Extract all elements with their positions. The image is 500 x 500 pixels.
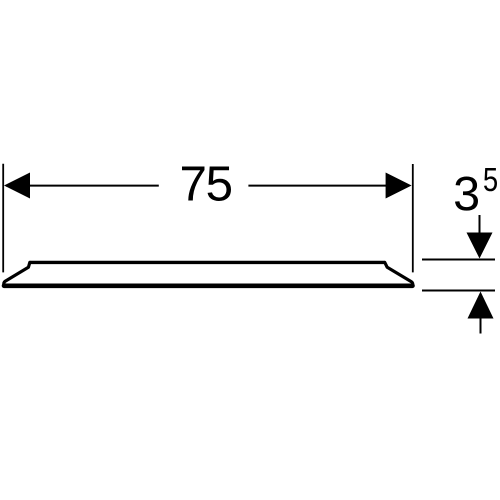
dimension text 75 xyxy=(182,167,231,202)
leader line above down arrow (3.5 dim) xyxy=(479,215,481,234)
up arrowhead (3.5 dim) xyxy=(468,292,494,319)
bottom extension line (thickness) xyxy=(422,290,495,292)
cover plate right bevel xyxy=(385,262,413,285)
cover plate top edge xyxy=(30,261,385,264)
top extension line (thickness) xyxy=(422,259,495,261)
dimension line 75, left segment xyxy=(6,185,159,187)
arrowhead left (75) xyxy=(4,173,30,199)
arrowhead right (75) xyxy=(386,173,412,199)
extension line left (width 75) xyxy=(2,164,4,273)
extension line right (width 75) xyxy=(412,164,414,272)
leader line below up arrow (3.5 dim) xyxy=(480,317,482,334)
superscript 5 (thickness 3.5) xyxy=(484,168,497,191)
cover plate left bevel xyxy=(4,262,30,285)
dimension line 75, right segment xyxy=(248,185,406,187)
down arrowhead (3.5 dim) xyxy=(467,233,493,259)
cover plate bottom edge xyxy=(4,283,413,288)
dimension text 3 (thickness) xyxy=(455,177,478,211)
